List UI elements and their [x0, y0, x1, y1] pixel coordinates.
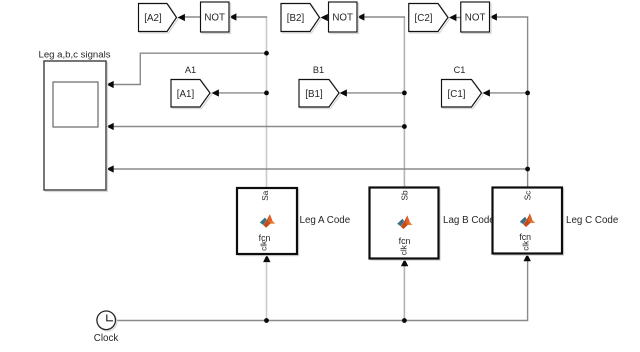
wire: vertical net Sc from fcn U3 top to NOT U6 input row: [527, 17, 529, 188]
svg-text:A1: A1: [185, 65, 196, 75]
svg-text:Leg A Code: Leg A Code: [300, 215, 351, 226]
arrowhead into goto tag B1: [340, 89, 347, 96]
goto tag B2: [281, 4, 321, 34]
NOT gate U5: [329, 2, 359, 34]
svg-text:clk: clk: [400, 244, 409, 255]
wire: vertical net Sb from fcn U2 top to NOT U5 input row: [403, 17, 405, 188]
goto tag A2: [139, 4, 179, 34]
svg-text:fcn: fcn: [519, 232, 531, 242]
wire: vertical net Sa from fcn U1 top to NOT U4 input row: [266, 17, 268, 188]
arrowhead into goto tag B2: [321, 14, 328, 21]
goto tag C2: [409, 4, 450, 34]
junction: net Sb to B1 branch: [402, 91, 407, 96]
arrowhead into scope input 2: [106, 123, 113, 130]
goto tag B1: [299, 80, 341, 109]
svg-text:[C2]: [C2]: [415, 13, 433, 24]
svg-text:clk: clk: [522, 240, 531, 251]
MATLAB logo U2: [397, 216, 412, 230]
svg-text:clk: clk: [260, 240, 269, 251]
svg-text:Leg C Code: Leg C Code: [566, 215, 619, 226]
svg-text:Sc: Sc: [523, 191, 532, 201]
wire: branch from net Sc to scope input 3: [112, 168, 528, 170]
wire: branch from net Sb to goto tag B1: [346, 92, 404, 94]
junction: net Sc to C1 branch: [525, 91, 530, 96]
svg-text:NOT: NOT: [465, 13, 486, 24]
svg-text:B1: B1: [313, 65, 324, 75]
arrowhead into fcn U1 clk input: [263, 255, 270, 263]
wire: clk riser into fcn U2: [403, 266, 405, 321]
svg-text:Clock: Clock: [94, 333, 119, 344]
svg-text:[A1]: [A1]: [177, 89, 195, 100]
MATLAB fcn block U3 (Leg C Code): [493, 188, 564, 256]
svg-text:[C1]: [C1]: [448, 89, 466, 100]
junction: net Sa to scope branch: [264, 51, 269, 56]
junction: net Sb to scope branch: [402, 124, 407, 129]
junction: clock bus to fcn U1 riser: [264, 318, 269, 323]
junction: net Sa to A1 branch: [264, 91, 269, 96]
arrowhead into scope input 1: [106, 81, 113, 88]
MATLAB fcn block U1 (Leg A Code): [237, 188, 299, 256]
clock source CLK1: [94, 311, 119, 344]
scope block Leg a,b,c signals: [39, 50, 111, 192]
arrowhead into scope input 3: [106, 165, 113, 172]
svg-text:Sa: Sa: [261, 190, 270, 200]
wire: branch from net Sa to goto tag A1: [218, 92, 267, 94]
wire: NOT U5 input horizontal segment: [364, 16, 406, 18]
arrowhead into NOT U4 input: [229, 13, 236, 20]
NOT gate U6: [461, 2, 491, 34]
wire: NOT U6 input horizontal segment: [496, 16, 528, 18]
svg-text:fcn: fcn: [399, 236, 411, 246]
arrowhead into goto tag A1: [212, 89, 219, 96]
wire: NOT U4 output to goto tag A2: [184, 16, 201, 18]
wire: branch from net Sa to scope input 1: [112, 53, 267, 84]
svg-text:C1: C1: [454, 65, 466, 75]
wire: clk riser into fcn U1: [266, 262, 268, 321]
wire: branch from net Sc to goto tag C1: [489, 92, 528, 94]
wire: clock distribution bottom bus: [116, 261, 528, 321]
arrowhead into goto tag C2: [449, 14, 456, 21]
arrowhead into goto tag A2: [178, 14, 185, 21]
arrowhead into goto tag C1: [483, 89, 490, 96]
svg-text:NOT: NOT: [332, 13, 353, 24]
svg-text:Lag B Code: Lag B Code: [443, 215, 495, 226]
NOT gate U4: [201, 2, 231, 34]
goto tag A1: [171, 80, 212, 109]
junction: net Sc to scope branch: [525, 167, 530, 172]
svg-text:Leg a,b,c signals: Leg a,b,c signals: [39, 50, 111, 61]
wire: NOT U6 output to goto tag C2: [456, 17, 461, 19]
svg-text:[B1]: [B1]: [305, 89, 323, 100]
arrowhead into fcn U2 clk input: [401, 259, 408, 267]
svg-text:[B2]: [B2]: [287, 13, 305, 24]
MATLAB fcn block U2 (Lag B Code): [370, 188, 441, 261]
MATLAB logo U1: [260, 214, 275, 228]
wire: NOT U4 input horizontal segment: [236, 16, 268, 18]
wire: branch from net Sb to scope input 2: [112, 126, 405, 128]
svg-text:NOT: NOT: [204, 13, 225, 24]
svg-text:[A2]: [A2]: [144, 13, 162, 24]
MATLAB logo U3: [520, 214, 535, 228]
svg-text:Sb: Sb: [401, 190, 410, 200]
arrowhead into NOT U6 input: [490, 13, 497, 20]
junction: clock bus to fcn U2 riser: [402, 318, 407, 323]
arrowhead into NOT U5 input: [357, 13, 364, 20]
goto tag C1: [442, 80, 484, 109]
arrowhead into fcn U3 clk input: [524, 254, 531, 261]
